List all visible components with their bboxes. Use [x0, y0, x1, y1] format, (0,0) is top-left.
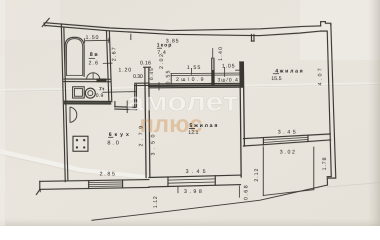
svg-text:3.98: 3.98 — [184, 189, 202, 195]
svg-text:1.05: 1.05 — [222, 63, 235, 69]
svg-text:8.0: 8.0 — [107, 140, 119, 146]
svg-text:1.40: 1.40 — [218, 47, 224, 61]
svg-text:0.55: 0.55 — [166, 70, 172, 84]
svg-text:2.02: 2.02 — [159, 54, 165, 69]
svg-text:1.12: 1.12 — [153, 196, 159, 208]
svg-text:1.78: 1.78 — [322, 157, 328, 170]
svg-text:0.9: 0.9 — [96, 93, 104, 99]
svg-text:0.45: 0.45 — [149, 68, 155, 80]
svg-text:15.5: 15.5 — [271, 76, 281, 82]
svg-text:2.6: 2.6 — [89, 61, 99, 67]
svg-text:3.85: 3.85 — [166, 38, 179, 44]
svg-text:2.85: 2.85 — [100, 172, 115, 178]
svg-text:2.12: 2.12 — [254, 169, 260, 182]
svg-text:1.55: 1.55 — [187, 65, 201, 71]
svg-text:0.68: 0.68 — [243, 185, 249, 200]
svg-text:8в: 8в — [90, 52, 99, 58]
svg-text:7т: 7т — [99, 86, 105, 92]
svg-text:0.30: 0.30 — [133, 74, 143, 80]
svg-text:2.67: 2.67 — [111, 47, 117, 61]
svg-text:3.02: 3.02 — [280, 149, 295, 155]
svg-text:1.50: 1.50 — [86, 35, 99, 41]
svg-text:0.16: 0.16 — [140, 61, 151, 67]
svg-text:1.20: 1.20 — [118, 68, 131, 74]
svg-text:12.1: 12.1 — [188, 130, 198, 136]
svg-text:3.45: 3.45 — [278, 130, 296, 136]
svg-text:4.07: 4.07 — [317, 68, 323, 85]
svg-text:3ш/0.4: 3ш/0.4 — [217, 78, 238, 84]
